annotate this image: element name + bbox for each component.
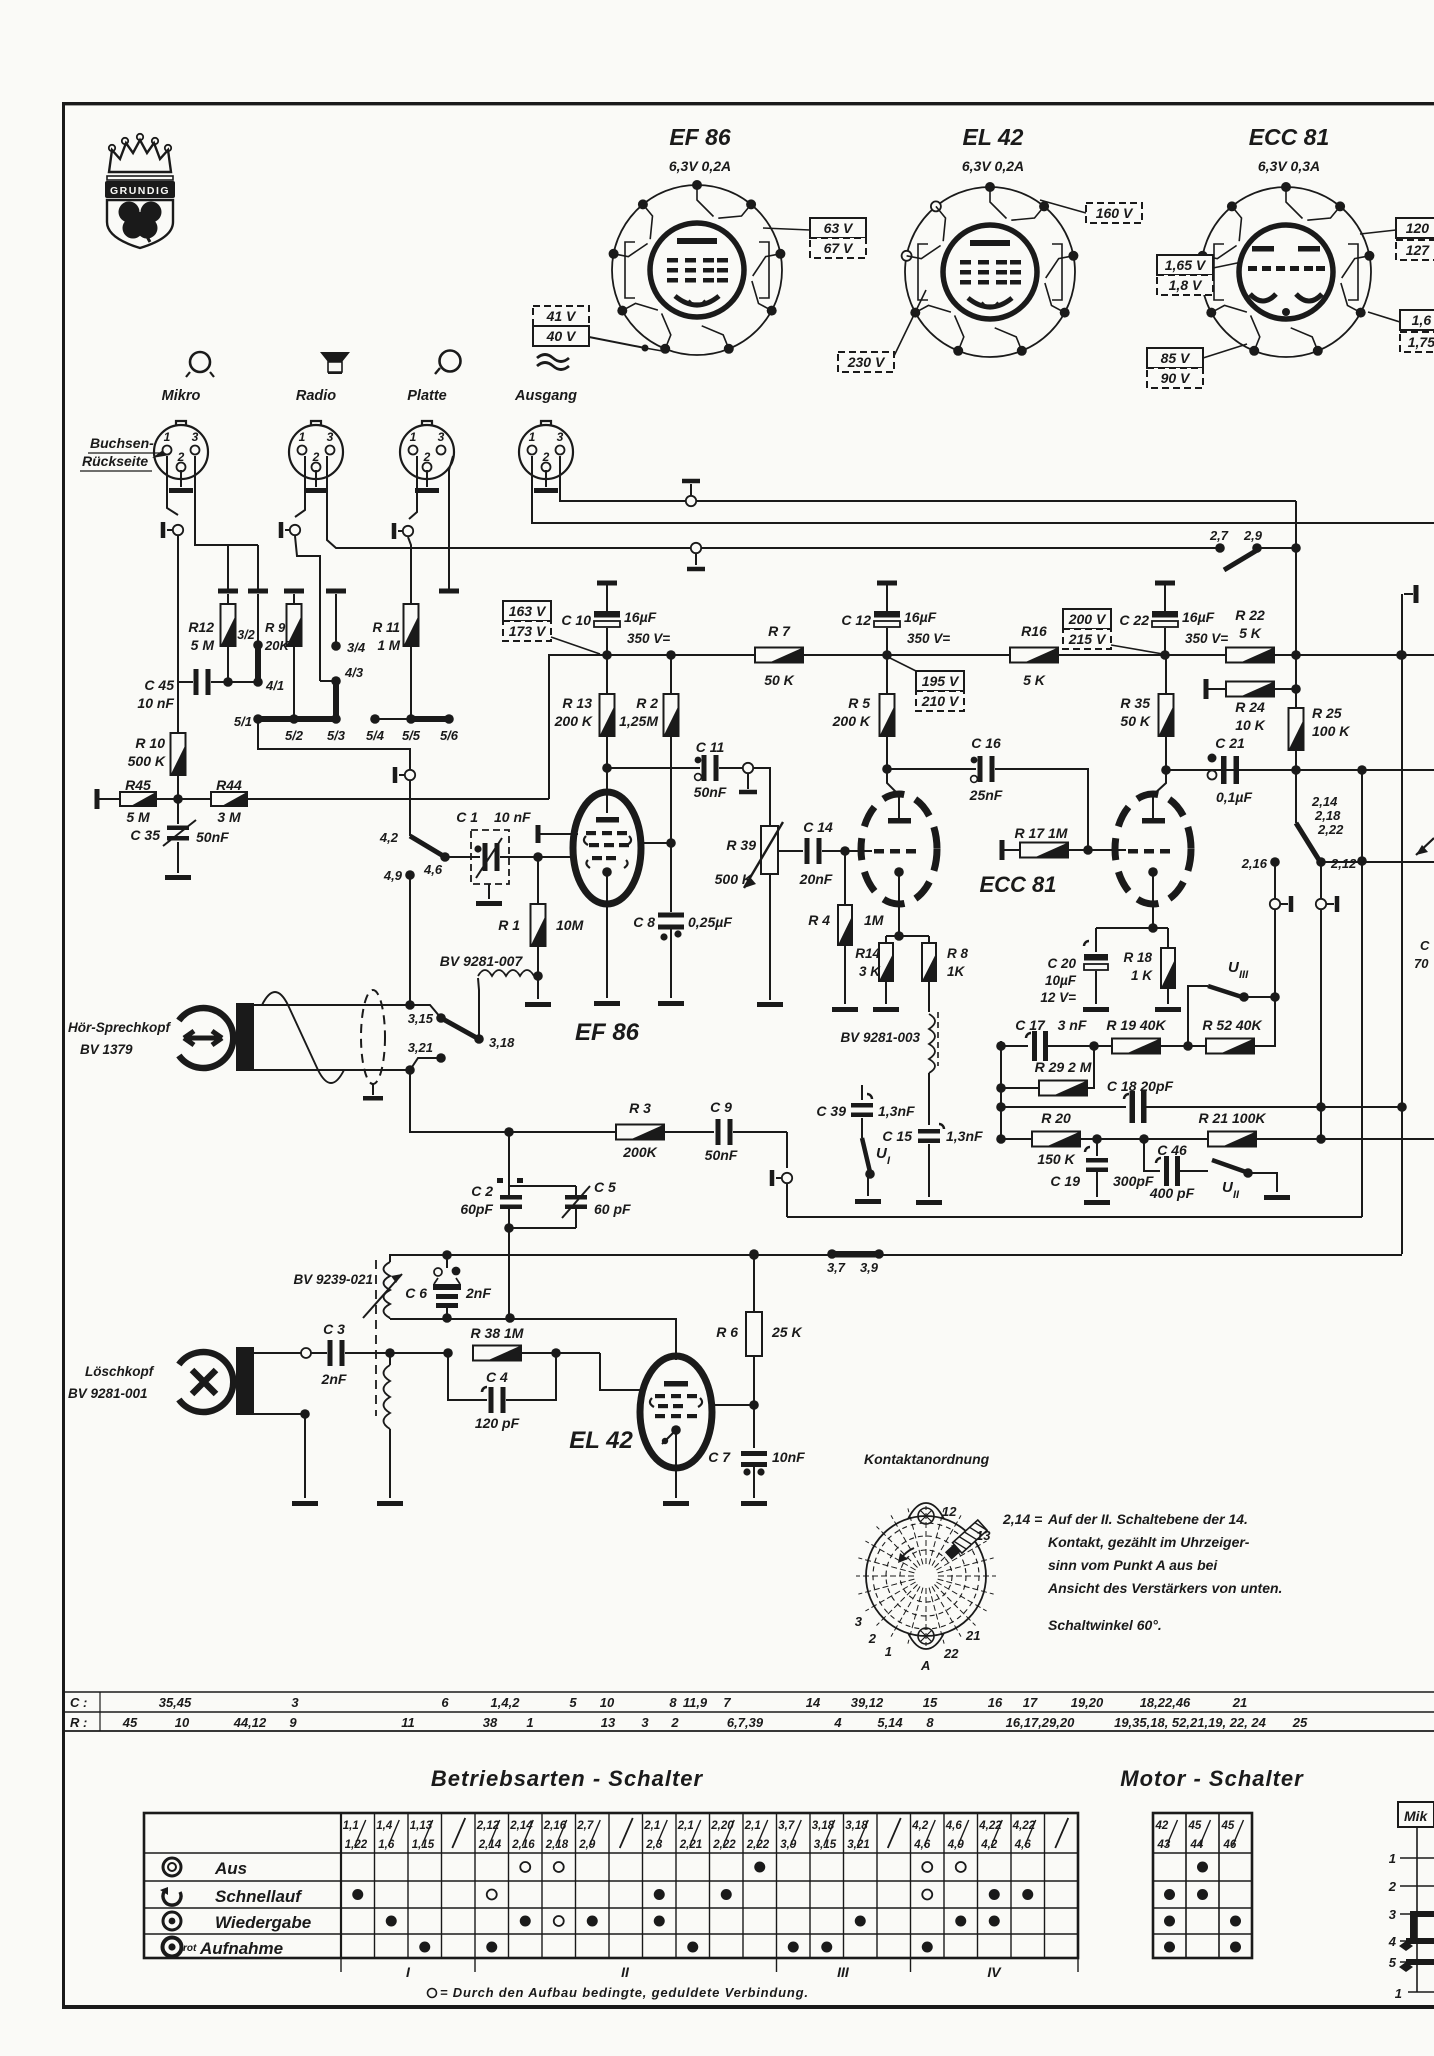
tube EL 42 socket top view bbox=[902, 124, 1079, 357]
voltage box 1,6V/1,75V bbox=[1400, 310, 1434, 330]
svg-text:C 8: C 8 bbox=[633, 914, 655, 930]
svg-text:38: 38 bbox=[483, 1715, 498, 1730]
svg-text:0,1µF: 0,1µF bbox=[1216, 789, 1253, 805]
svg-text:1,25M: 1,25M bbox=[619, 713, 658, 729]
svg-text:4,9: 4,9 bbox=[947, 1839, 965, 1851]
resistor R16 bbox=[1010, 623, 1058, 688]
Hoer-Sprechkopf head bbox=[68, 990, 415, 1101]
svg-text:C 16: C 16 bbox=[971, 735, 1001, 751]
svg-text:2,3: 2,3 bbox=[645, 1839, 663, 1851]
svg-text:R 22: R 22 bbox=[1235, 607, 1265, 623]
switch U III bbox=[1188, 959, 1280, 1046]
svg-text:63 V: 63 V bbox=[824, 220, 854, 236]
note geduldete Verbindung bbox=[428, 1985, 809, 2000]
svg-text:10M: 10M bbox=[556, 917, 584, 933]
svg-text:C 22: C 22 bbox=[1119, 612, 1149, 628]
svg-text:R 13: R 13 bbox=[562, 695, 592, 711]
wire EL42 screen to R6/C7 bbox=[712, 1404, 754, 1406]
svg-text:3 K: 3 K bbox=[859, 964, 881, 979]
triode ECC81 b bbox=[1115, 794, 1191, 904]
svg-text:R 29 2 M: R 29 2 M bbox=[1035, 1059, 1092, 1075]
svg-text:20nF: 20nF bbox=[799, 871, 833, 887]
svg-text:= Durch den Aufbau bedingte, g: = Durch den Aufbau bedingte, geduldete V… bbox=[440, 1985, 809, 2000]
svg-text:R45: R45 bbox=[125, 777, 151, 793]
svg-text:Rückseite: Rückseite bbox=[82, 453, 148, 469]
capacitor C4 bbox=[448, 1353, 556, 1431]
wire B+ rail y655 bbox=[599, 654, 1434, 656]
label Buchsen-Rueckseite bbox=[80, 435, 170, 471]
svg-text:C 1: C 1 bbox=[456, 809, 478, 825]
voltage box 200V/215V bbox=[1063, 609, 1111, 629]
svg-text:40 V: 40 V bbox=[546, 328, 577, 344]
svg-text:215 V: 215 V bbox=[1068, 631, 1107, 647]
svg-text:4,6: 4,6 bbox=[1014, 1839, 1032, 1851]
capacitor C15 bbox=[882, 1124, 983, 1205]
svg-text:C 7: C 7 bbox=[708, 1449, 731, 1465]
svg-text:100 K: 100 K bbox=[1312, 723, 1350, 739]
wire C14 to grid1 bbox=[822, 850, 872, 852]
svg-text:13: 13 bbox=[601, 1715, 616, 1730]
svg-text:50nF: 50nF bbox=[705, 1147, 738, 1163]
resistor R44 bbox=[173, 777, 549, 825]
svg-text:C 46: C 46 bbox=[1157, 1142, 1187, 1158]
svg-text:3,18: 3,18 bbox=[845, 1820, 868, 1832]
svg-text:163 V: 163 V bbox=[509, 603, 547, 619]
svg-text:R 10: R 10 bbox=[135, 735, 165, 751]
svg-text:2: 2 bbox=[670, 1715, 679, 1730]
svg-text:11: 11 bbox=[401, 1715, 415, 1730]
svg-text:Wiedergabe: Wiedergabe bbox=[215, 1913, 311, 1932]
svg-text:ECC 81: ECC 81 bbox=[979, 872, 1056, 897]
Betriebsarten switch table bbox=[144, 1813, 1078, 1980]
svg-text:41 V: 41 V bbox=[546, 308, 577, 324]
svg-text:8: 8 bbox=[669, 1695, 677, 1710]
EF86 tube bbox=[573, 792, 641, 1046]
svg-text:GRUNDIG: GRUNDIG bbox=[110, 185, 170, 197]
svg-text:17: 17 bbox=[1023, 1695, 1038, 1710]
svg-text:3,15: 3,15 bbox=[408, 1011, 434, 1026]
svg-text:2,7: 2,7 bbox=[576, 1820, 594, 1832]
wire Platte pin3 to 5/6 column bbox=[449, 456, 453, 589]
capacitor C5 trimmer bbox=[504, 1179, 631, 1318]
svg-text:R14: R14 bbox=[855, 946, 880, 961]
svg-text:1 M: 1 M bbox=[377, 638, 400, 653]
svg-text:BV 9239-021: BV 9239-021 bbox=[293, 1272, 373, 1287]
wire R44 row up to B+ rail bbox=[549, 655, 599, 799]
tube EF 86 socket top view bbox=[609, 124, 786, 355]
capacitor C1 with trimmer box bbox=[445, 809, 536, 906]
svg-text:0,25µF: 0,25µF bbox=[688, 914, 732, 930]
svg-text:200K: 200K bbox=[622, 1144, 657, 1160]
svg-text:1: 1 bbox=[299, 430, 306, 444]
capacitor C9 bbox=[664, 1099, 787, 1163]
svg-text:C :: C : bbox=[70, 1695, 87, 1710]
switch U II bbox=[1212, 1160, 1290, 1201]
resistor R11 bbox=[372, 604, 418, 719]
svg-text:BV 9281-001: BV 9281-001 bbox=[68, 1386, 148, 1401]
svg-text:2: 2 bbox=[312, 450, 320, 464]
capacitor C8 bbox=[633, 913, 732, 1007]
resistor R7 bbox=[755, 623, 803, 688]
resistor R14 bbox=[855, 936, 899, 1012]
svg-text:R 4: R 4 bbox=[808, 912, 830, 928]
svg-text:4,2: 4,2 bbox=[379, 830, 399, 845]
svg-text:3,9: 3,9 bbox=[780, 1839, 797, 1851]
svg-text:22: 22 bbox=[943, 1646, 959, 1661]
svg-text:6,3V 0,2A: 6,3V 0,2A bbox=[669, 158, 731, 174]
voltage box 163V/173V bbox=[503, 601, 551, 621]
svg-text:5/6: 5/6 bbox=[440, 728, 459, 743]
svg-text:45: 45 bbox=[1221, 1820, 1235, 1832]
svg-text:3: 3 bbox=[438, 430, 445, 444]
svg-text:300pF: 300pF bbox=[1113, 1173, 1154, 1189]
index band C and R rows bbox=[63, 1692, 1434, 1731]
resistor R5 bbox=[832, 655, 899, 818]
svg-text:25nF: 25nF bbox=[969, 787, 1003, 803]
svg-text:1: 1 bbox=[410, 430, 417, 444]
svg-text:2,7: 2,7 bbox=[1209, 528, 1229, 543]
svg-text:4/3: 4/3 bbox=[344, 665, 364, 680]
svg-text:14: 14 bbox=[806, 1695, 821, 1710]
svg-text:1,1: 1,1 bbox=[343, 1820, 359, 1832]
svg-text:sinn vom Punkt A aus bei: sinn vom Punkt A aus bei bbox=[1048, 1557, 1218, 1573]
svg-text:150 K: 150 K bbox=[1037, 1151, 1075, 1167]
svg-text:C 18 20pF: C 18 20pF bbox=[1107, 1078, 1174, 1094]
svg-text:R 6: R 6 bbox=[716, 1324, 738, 1340]
svg-text:2,9: 2,9 bbox=[578, 1839, 596, 1851]
svg-text:2,18: 2,18 bbox=[1314, 808, 1341, 823]
resistor R12 bbox=[188, 594, 235, 682]
resistor R2 bbox=[619, 655, 678, 912]
voltage box 230V bbox=[838, 352, 894, 372]
svg-text:1,65 V: 1,65 V bbox=[1165, 257, 1207, 273]
capacitor C21 bbox=[1208, 735, 1301, 805]
svg-text:120 V: 120 V bbox=[1406, 220, 1434, 236]
right edge arrow bbox=[1414, 838, 1434, 971]
svg-text:R 2: R 2 bbox=[636, 695, 658, 711]
resistor R22 bbox=[1226, 607, 1274, 663]
svg-text:rot: rot bbox=[183, 1943, 197, 1954]
wire oscillator bottom rail to EL42 bbox=[390, 1319, 676, 1360]
svg-text:200 K: 200 K bbox=[554, 713, 593, 729]
svg-text:BV 1379: BV 1379 bbox=[80, 1042, 133, 1057]
svg-text:C 3: C 3 bbox=[323, 1321, 345, 1337]
svg-text:19,20: 19,20 bbox=[1071, 1695, 1104, 1710]
svg-text:Aus: Aus bbox=[214, 1859, 247, 1878]
svg-text:3: 3 bbox=[641, 1715, 649, 1730]
EL42 tube bbox=[569, 1356, 712, 1506]
svg-text:Auf der II. Schaltebene der: Auf der II. Schaltebene der 14. bbox=[1047, 1511, 1248, 1527]
svg-text:50nF: 50nF bbox=[196, 829, 229, 845]
svg-text:R 38 1M: R 38 1M bbox=[471, 1325, 524, 1341]
svg-text:R16: R16 bbox=[1021, 623, 1047, 639]
svg-text:Ausgang: Ausgang bbox=[514, 388, 577, 404]
svg-text:1,13: 1,13 bbox=[410, 1820, 433, 1832]
resistor R21 bbox=[1199, 1110, 1434, 1147]
svg-text:BV 9281-007: BV 9281-007 bbox=[440, 953, 524, 969]
inductor BV 9281-003 bbox=[840, 1012, 938, 1125]
svg-text:500 K: 500 K bbox=[128, 753, 166, 769]
svg-text:II: II bbox=[1233, 1189, 1240, 1201]
svg-text:3,18: 3,18 bbox=[489, 1035, 515, 1050]
svg-text:2,14 =: 2,14 = bbox=[1002, 1511, 1042, 1527]
svg-text:16: 16 bbox=[988, 1695, 1003, 1710]
svg-text:5 M: 5 M bbox=[191, 637, 215, 653]
svg-text:C 19: C 19 bbox=[1050, 1173, 1080, 1189]
svg-text:2,9: 2,9 bbox=[1243, 528, 1263, 543]
svg-text:C 21: C 21 bbox=[1215, 735, 1245, 751]
svg-text:3: 3 bbox=[327, 430, 334, 444]
voltage box 41V/40V bbox=[533, 306, 589, 326]
svg-text:Hör-Sprechkopf: Hör-Sprechkopf bbox=[68, 1020, 172, 1035]
resistor R18 bbox=[1123, 928, 1181, 1012]
wire Radio pin3 rail y548 to switch 2,7/2,9 bbox=[327, 456, 1220, 548]
wire R38 row to EL42 grid bbox=[600, 1353, 642, 1390]
svg-text:1: 1 bbox=[526, 1715, 533, 1730]
svg-text:11,9: 11,9 bbox=[683, 1695, 708, 1710]
capacitor C2 bbox=[460, 1132, 576, 1217]
svg-text:Betriebsarten - Schalter: Betriebsarten - Schalter bbox=[431, 1766, 704, 1791]
svg-text:5,14: 5,14 bbox=[877, 1715, 903, 1730]
svg-text:R 18: R 18 bbox=[1123, 950, 1152, 965]
svg-text:R 3: R 3 bbox=[629, 1100, 651, 1116]
svg-text:6: 6 bbox=[441, 1695, 449, 1710]
Kontaktanordnung diagram bbox=[855, 1451, 1283, 1673]
svg-text:10µF: 10µF bbox=[1045, 973, 1077, 988]
svg-text:Motor - Schalter: Motor - Schalter bbox=[1120, 1766, 1304, 1791]
svg-text:R 24: R 24 bbox=[1235, 699, 1265, 715]
svg-text:1: 1 bbox=[1395, 1986, 1402, 2001]
svg-text:2nF: 2nF bbox=[465, 1285, 491, 1301]
svg-text:5: 5 bbox=[569, 1695, 577, 1710]
svg-text:1: 1 bbox=[164, 430, 171, 444]
svg-text:C 15: C 15 bbox=[882, 1128, 912, 1144]
svg-text:1: 1 bbox=[885, 1644, 892, 1659]
svg-text:3 nF: 3 nF bbox=[1058, 1017, 1087, 1033]
svg-text:50nF: 50nF bbox=[694, 784, 727, 800]
triode ECC81 a bbox=[861, 794, 1057, 904]
contact 4/3 and bar bbox=[320, 665, 364, 721]
svg-text:III: III bbox=[1239, 969, 1249, 981]
svg-text:120 pF: 120 pF bbox=[475, 1415, 520, 1431]
svg-text:EF 86: EF 86 bbox=[575, 1019, 640, 1046]
svg-text:5 K: 5 K bbox=[1239, 625, 1262, 641]
resistor R10 bbox=[128, 733, 186, 775]
svg-text:1,4,2: 1,4,2 bbox=[491, 1695, 521, 1710]
resistor R1 bbox=[498, 857, 583, 1007]
svg-text:4,9: 4,9 bbox=[383, 868, 403, 883]
svg-text:EF 86: EF 86 bbox=[669, 124, 731, 150]
svg-text:39,12: 39,12 bbox=[851, 1695, 884, 1710]
svg-text:C 11: C 11 bbox=[696, 739, 725, 755]
svg-text:EL 42: EL 42 bbox=[569, 1427, 633, 1454]
wire grid1 EF86 bbox=[510, 856, 575, 858]
svg-text:10 nF: 10 nF bbox=[494, 809, 531, 825]
svg-text:2: 2 bbox=[1388, 1879, 1397, 1894]
capacitor C7 bbox=[708, 1449, 805, 1506]
contact Mikro line bbox=[173, 525, 183, 535]
svg-text:2,22: 2,22 bbox=[1317, 822, 1344, 837]
svg-text:3: 3 bbox=[855, 1614, 863, 1629]
wire Radio pin1 down to contact bbox=[295, 456, 305, 517]
svg-text:Buchsen-: Buchsen- bbox=[90, 435, 154, 451]
svg-text:85 V: 85 V bbox=[1161, 350, 1191, 366]
svg-text:60 pF: 60 pF bbox=[594, 1201, 631, 1217]
svg-text:3,7: 3,7 bbox=[778, 1820, 795, 1832]
svg-text:10: 10 bbox=[175, 1715, 190, 1730]
svg-text:C 6: C 6 bbox=[405, 1285, 427, 1301]
svg-text:500 K: 500 K bbox=[715, 871, 753, 887]
wire screen EF86 to R2 bbox=[640, 842, 671, 844]
Grundig logo bbox=[105, 134, 175, 248]
svg-text:45: 45 bbox=[1188, 1820, 1202, 1832]
svg-text:Radio: Radio bbox=[296, 388, 336, 404]
svg-text:2,12: 2,12 bbox=[1330, 856, 1357, 871]
svg-text:R 9: R 9 bbox=[265, 620, 286, 635]
resistor R6 bbox=[716, 1249, 802, 1448]
svg-text:2,1: 2,1 bbox=[677, 1820, 694, 1832]
wire Ausgang pin1 to long rail y523 bbox=[532, 456, 1434, 523]
switch 3,15/3,18 bbox=[408, 1005, 515, 1050]
svg-text:21: 21 bbox=[1232, 1695, 1247, 1710]
inductor BV 9281-007 bbox=[440, 953, 538, 1039]
wire row y1217 bbox=[787, 1216, 1362, 1218]
svg-text:III: III bbox=[837, 1964, 850, 1980]
svg-text:90 V: 90 V bbox=[1161, 370, 1191, 386]
svg-text:C 10: C 10 bbox=[561, 612, 591, 628]
wire x1402 vertical bbox=[1401, 594, 1403, 1254]
wire Mikro pin3 to R12/3-2 stubs bbox=[195, 456, 258, 545]
svg-text:IV: IV bbox=[987, 1964, 1002, 1980]
svg-text:12: 12 bbox=[942, 1504, 957, 1519]
svg-text:1,4: 1,4 bbox=[376, 1820, 393, 1832]
capacitor C14 bbox=[778, 819, 866, 887]
resistor R17 bbox=[1000, 825, 1127, 860]
resistor R52 bbox=[1202, 996, 1275, 1054]
svg-text:A: A bbox=[920, 1658, 930, 1673]
svg-text:R 21 100K: R 21 100K bbox=[1199, 1110, 1267, 1126]
voltage box 160V bbox=[1086, 203, 1142, 223]
capacitor C11 bbox=[607, 739, 742, 800]
svg-text:6,3V 0,2A: 6,3V 0,2A bbox=[962, 158, 1024, 174]
svg-text:R 20: R 20 bbox=[1041, 1110, 1071, 1126]
contact on C11 line bbox=[743, 763, 753, 773]
contact 2,12 bbox=[1321, 856, 1434, 871]
svg-text:2,14: 2,14 bbox=[1311, 794, 1338, 809]
socket Platte bbox=[400, 351, 461, 494]
svg-text:173 V: 173 V bbox=[509, 623, 547, 639]
svg-text:350 V=: 350 V= bbox=[907, 631, 950, 646]
svg-text:19,35,18, 52,21,19, 22, 24: 19,35,18, 52,21,19, 22, 24 bbox=[1114, 1715, 1267, 1730]
resistor R9 bbox=[264, 594, 302, 719]
svg-text:3: 3 bbox=[1389, 1907, 1397, 1922]
contact 3,21 bbox=[408, 1040, 446, 1070]
svg-text:3,21: 3,21 bbox=[408, 1040, 433, 1055]
svg-text:8: 8 bbox=[926, 1715, 934, 1730]
svg-text:4/1: 4/1 bbox=[265, 678, 284, 693]
svg-text:5/5: 5/5 bbox=[402, 728, 421, 743]
wire EF86 cathode to ground bbox=[606, 872, 608, 998]
resistor R45 and left terminal bbox=[95, 777, 213, 825]
resistor R38 bbox=[471, 1325, 600, 1361]
capacitor C18 bbox=[996, 1078, 1402, 1123]
contact bus 5/4-5/6 bbox=[366, 714, 459, 743]
wire bus x1001 bbox=[1000, 1041, 1002, 1139]
svg-text:13: 13 bbox=[976, 1528, 991, 1543]
capacitor C46 bbox=[1144, 1139, 1208, 1201]
svg-text:2,1: 2,1 bbox=[744, 1820, 761, 1832]
svg-text:R 5: R 5 bbox=[848, 695, 870, 711]
svg-text:44,12: 44,12 bbox=[233, 1715, 267, 1730]
capacitor C10 bbox=[561, 581, 670, 656]
svg-text:1: 1 bbox=[529, 430, 536, 444]
svg-text:6,7,39: 6,7,39 bbox=[727, 1715, 764, 1730]
svg-text:350 V=: 350 V= bbox=[627, 631, 670, 646]
wire selector column down to R3 row bbox=[410, 1070, 509, 1132]
svg-text:5: 5 bbox=[1389, 1955, 1397, 1970]
wire cathode1 to R14/R8 bbox=[886, 872, 929, 941]
wire anode1 coupling row y769 C16 bbox=[887, 735, 1088, 850]
contact 2,16 bbox=[1241, 856, 1280, 871]
svg-text:60pF: 60pF bbox=[460, 1201, 493, 1217]
svg-text:3,21: 3,21 bbox=[847, 1839, 869, 1851]
wire Mikro pin1 down bbox=[167, 456, 178, 515]
svg-text:2,16: 2,16 bbox=[1241, 856, 1268, 871]
resistor R13 bbox=[554, 655, 615, 813]
svg-text:3: 3 bbox=[557, 430, 564, 444]
svg-text:5/2: 5/2 bbox=[285, 728, 304, 743]
svg-text:2: 2 bbox=[177, 450, 185, 464]
EF86 grid stub terminal bbox=[536, 825, 541, 843]
svg-text:10 K: 10 K bbox=[1235, 717, 1265, 733]
svg-text:R 39: R 39 bbox=[726, 837, 756, 853]
svg-text:Kontaktanordnung: Kontaktanordnung bbox=[864, 1451, 990, 1467]
svg-text:400 pF: 400 pF bbox=[1149, 1185, 1195, 1201]
capacitor C17 bbox=[996, 1017, 1112, 1061]
capacitor C3 bbox=[301, 1321, 453, 1387]
right edge Mik box and motor wiring bbox=[1388, 1802, 1434, 2001]
contact on x410 bbox=[405, 770, 415, 780]
capacitor C22 bbox=[1119, 581, 1228, 656]
svg-text:C 4: C 4 bbox=[486, 1369, 508, 1385]
tube ECC 81 socket top view bbox=[1198, 124, 1375, 357]
contact bar 3/2 bbox=[237, 594, 262, 684]
svg-text:Mik: Mik bbox=[1404, 1808, 1429, 1824]
svg-text:70: 70 bbox=[1414, 956, 1429, 971]
svg-text:R :: R : bbox=[70, 1715, 87, 1730]
svg-text:16µF: 16µF bbox=[624, 609, 657, 625]
svg-text:R 52 40K: R 52 40K bbox=[1202, 1017, 1262, 1033]
svg-text:C 20: C 20 bbox=[1047, 956, 1076, 971]
resistor R8 bbox=[922, 936, 969, 1012]
switch 4,2/4,6 bbox=[379, 830, 450, 877]
svg-text:Aufnahme: Aufnahme bbox=[199, 1939, 283, 1958]
svg-text:9: 9 bbox=[289, 1715, 297, 1730]
svg-text:R12: R12 bbox=[188, 619, 214, 635]
socket Mikro bbox=[154, 352, 214, 493]
svg-text:5 K: 5 K bbox=[1023, 672, 1046, 688]
svg-text:127 V: 127 V bbox=[1406, 242, 1434, 258]
svg-text:3,18: 3,18 bbox=[812, 1820, 835, 1832]
svg-text:1K: 1K bbox=[947, 964, 966, 979]
svg-text:C 14: C 14 bbox=[803, 819, 833, 835]
svg-text:160 V: 160 V bbox=[1096, 205, 1134, 221]
svg-text:42: 42 bbox=[1155, 1820, 1169, 1832]
wire cathode2 row bbox=[1096, 872, 1168, 933]
terminal bars above R12,R9 etc bbox=[218, 589, 238, 594]
svg-text:25: 25 bbox=[1292, 1715, 1308, 1730]
switch U I bbox=[855, 1138, 891, 1204]
